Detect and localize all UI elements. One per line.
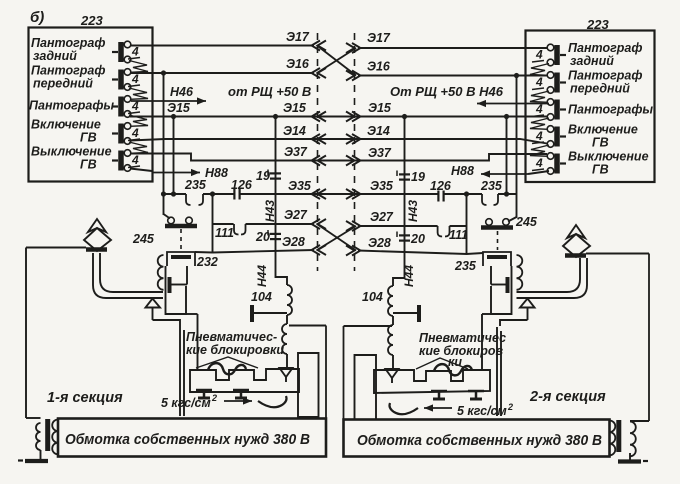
valve block side chamber (left)	[298, 353, 319, 417]
holding coil 245 (left)	[132, 232, 164, 290]
svg-text:Пантографы: Пантографы	[568, 103, 653, 117]
svg-text:Пантограф: Пантограф	[568, 69, 642, 83]
svg-text:Н44: Н44	[402, 265, 416, 287]
mechanical link to valve 235 (dashed, right)	[497, 231, 499, 250]
svg-text:Пантограф: Пантограф	[31, 64, 105, 78]
svg-text:ГВ: ГВ	[592, 136, 609, 150]
contact 111 (right)	[438, 226, 468, 242]
capacitor 20 (right)	[397, 232, 425, 247]
svg-text:2-я секция: 2-я секция	[529, 389, 606, 405]
diode arrester (left)	[146, 299, 181, 327]
svg-text:б): б)	[30, 9, 44, 26]
valve 232 armature plate	[170, 266, 188, 293]
crossover Э17/Э16 between sections	[317, 46, 356, 76]
vertical wire from Э16 to blocking contacts (right)	[516, 76, 518, 219]
switch contact SQ1 "пантограф задний" with pin label 4 (left box)	[31, 36, 140, 63]
svg-text:Н44: Н44	[255, 265, 269, 287]
svg-text:Э16: Э16	[367, 60, 391, 74]
svg-text:Э35: Э35	[288, 179, 312, 193]
wire Э35	[161, 179, 517, 199]
air pipe from pantograph drive (right, double line)	[517, 258, 588, 298]
svg-text:Э37: Э37	[368, 146, 392, 160]
switch contact SQ2' "пантограф передний" with pin label 4 (right box)	[532, 69, 642, 96]
svg-text:задний: задний	[33, 49, 77, 63]
svg-text:Э27: Э27	[284, 208, 308, 222]
svg-text:Э15: Э15	[283, 101, 307, 115]
diode at pneumatic block (left)	[280, 368, 293, 382]
svg-text:передний: передний	[570, 82, 630, 96]
air pressure label 5 кгс/см2 (right)	[390, 402, 514, 418]
svg-text:передний: передний	[33, 77, 93, 91]
roof wire from pantograph to section feeder (right)	[586, 254, 649, 422]
wire Э14	[130, 124, 547, 144]
interlock contact 235 (left)	[184, 178, 207, 205]
switch contact SQ3 "пантографы" with pin label 4 (left box)	[29, 96, 140, 118]
wire Э17 right half	[346, 31, 547, 53]
switch contact SQ1' "пантограф задний" with pin label 4 (right box)	[532, 41, 642, 68]
svg-text:кие блокировки: кие блокировки	[186, 343, 284, 357]
wire Э16 right half	[346, 60, 547, 81]
wire Э28	[213, 235, 468, 256]
svg-text:4: 4	[131, 72, 139, 86]
pneumatic valve coil (left)	[282, 315, 287, 368]
ground (right)	[618, 453, 648, 462]
svg-text:Пневматичес-: Пневматичес-	[186, 330, 277, 344]
svg-text:235: 235	[480, 179, 503, 193]
electro-pneumatic valve 232	[167, 252, 218, 269]
svg-text:ГВ: ГВ	[80, 158, 97, 172]
svg-text:Н46: Н46	[170, 85, 194, 99]
svg-text:Э14: Э14	[367, 124, 390, 138]
capacitor 19 (left)	[256, 169, 281, 183]
wire Н44 from Э28 to valve coil (right)	[393, 254, 416, 287]
svg-text:4: 4	[131, 126, 139, 140]
svg-text:4: 4	[535, 156, 543, 170]
svg-text:задний: задний	[570, 54, 614, 68]
svg-text:126: 126	[430, 179, 452, 193]
air pressure label 5 кгс/см2 (left)	[161, 393, 287, 410]
wire Н46 arrow (left)	[131, 85, 206, 105]
vertical wire Э15 to wire 235 node (left)	[173, 117, 175, 195]
svg-text:1-я секция: 1-я секция	[47, 390, 123, 406]
svg-text:19: 19	[256, 169, 270, 183]
section-boundary dashed line (right)	[354, 33, 356, 271]
switch contact SQ4 "включение ГВ" with pin label 4 (left box)	[31, 118, 140, 145]
valve 235 body (right)	[482, 266, 512, 371]
capacitor 104 plate (right)	[393, 305, 419, 322]
wire Н88 arrow (left)	[130, 166, 228, 180]
svg-text:20: 20	[255, 230, 270, 244]
svg-text:245: 245	[515, 215, 538, 229]
crossover Э27/Э28 between sections	[317, 224, 356, 251]
transformer (left)	[36, 419, 58, 454]
interlock contact 235 (right)	[480, 179, 503, 205]
svg-text:от РЩ +50 В: от РЩ +50 В	[228, 84, 311, 99]
diode arrester (right)	[500, 299, 535, 327]
blocking contact with pins (right)	[481, 217, 517, 228]
wire Н88 arrow (right)	[451, 164, 549, 178]
wire Э16 left half	[130, 57, 326, 78]
section enclosure lines (right)	[344, 326, 502, 420]
valve 232 body	[166, 266, 198, 370]
label Пневматические блокировки (right)	[416, 331, 506, 369]
switch contact SQ3' "пантографы" with pin label 4 (right box)	[532, 99, 653, 121]
svg-text:Э17: Э17	[367, 31, 391, 45]
svg-text:Н88: Н88	[451, 164, 474, 178]
label Пневматические блокировки (left)	[186, 330, 284, 368]
svg-text:Н88: Н88	[205, 166, 228, 180]
svg-text:235: 235	[454, 259, 477, 273]
svg-text:ГВ: ГВ	[592, 163, 609, 177]
pneumatic blocking valves (right section)	[374, 364, 490, 399]
controller box 223 (right)	[526, 17, 655, 182]
wire Н43 vertical with capacitors 19 and 20 (left)	[263, 117, 277, 251]
wire Э17 left half	[130, 30, 326, 51]
wire Н46? vertical from Э16 to blocking contacts (left)	[163, 73, 165, 215]
auxiliary winding box 380V (right)	[344, 420, 610, 457]
section label 1-я секция	[47, 390, 123, 406]
svg-text:2: 2	[507, 402, 513, 412]
svg-text:104: 104	[362, 290, 383, 304]
roof wire from pantograph to section feeder (left)	[26, 248, 86, 419]
wire Н43 vertical with capacitors 19 and 20 (right)	[405, 117, 421, 255]
svg-text:5 кгс/см: 5 кгс/см	[457, 404, 507, 418]
pneumatic blocking valves (left section)	[190, 363, 299, 398]
svg-text:4: 4	[131, 153, 139, 167]
diode at pneumatic block (right)	[386, 369, 399, 383]
svg-text:Обмотка собственных нужд 380: Обмотка собственных нужд 380 В	[357, 433, 602, 449]
svg-text:223: 223	[80, 13, 103, 28]
wire Н46 arrow (right) with feeder label От РЩ +50 В	[390, 84, 549, 107]
zigzag interlock wires between right box contacts	[530, 64, 549, 157]
mechanical link to valve 232 (dashed)	[180, 229, 182, 250]
wire Э37 with jogs	[130, 145, 547, 166]
vertical wire node to Э27 (left)	[212, 194, 214, 253]
svg-text:Пантографы: Пантографы	[29, 99, 114, 113]
svg-text:5 кгс/см: 5 кгс/см	[161, 396, 211, 410]
valve magnet coil 104 (right)	[362, 286, 393, 316]
svg-text:Э35: Э35	[370, 179, 394, 193]
vertical wire node to Э27 (right)	[466, 194, 468, 254]
svg-text:19: 19	[411, 170, 425, 184]
svg-text:111: 111	[449, 228, 468, 242]
holding coil 245 (right)	[515, 215, 538, 290]
section enclosure lines (left)	[180, 326, 326, 419]
svg-text:20: 20	[410, 232, 425, 246]
switch contact SQ5 "выключение ГВ" with pin label 4 (left box)	[31, 145, 140, 172]
svg-text:Выключение: Выключение	[568, 150, 649, 164]
svg-text:Н43: Н43	[263, 200, 277, 222]
svg-text:Э28: Э28	[368, 236, 391, 250]
svg-text:ГВ: ГВ	[80, 131, 97, 145]
svg-text:Включение: Включение	[568, 123, 638, 137]
vertical wire Э15 to wire 235 node (right)	[506, 117, 508, 195]
svg-text:4: 4	[131, 45, 139, 59]
switch contact SQ2 "пантограф передний" with pin label 4 (left box)	[31, 64, 140, 91]
section label 2-я секция	[529, 389, 606, 405]
capacitor 126 (left)	[231, 178, 253, 200]
wire Н44 from Э28 to valve coil (left)	[255, 251, 287, 288]
auxiliary winding box 380V (left)	[58, 419, 326, 457]
controller box 223 (left)	[29, 13, 153, 182]
switch contact SQ4' "включение ГВ" with pin label 4 (right box)	[532, 123, 638, 150]
feeder label от РЩ +50 В (left)	[228, 84, 311, 99]
valve 235 armature plate (right)	[491, 266, 508, 293]
section-boundary dashed line (left)	[317, 33, 319, 271]
pantograph (right section)	[563, 225, 590, 257]
svg-text:Э27: Э27	[370, 210, 394, 224]
switch contact SQ5' "выключение ГВ" with pin label 4 (right box)	[532, 150, 649, 177]
svg-text:Пантограф: Пантограф	[31, 36, 105, 50]
zigzag interlock wires between left box contacts	[129, 61, 148, 154]
capacitor 19 (right)	[397, 170, 425, 184]
svg-text:От РЩ +50 В Н46: От РЩ +50 В Н46	[390, 84, 504, 99]
capacitor 20 (left)	[255, 230, 281, 244]
valve magnet coil 104 (left)	[251, 285, 292, 315]
pantograph (left section)	[84, 219, 111, 251]
svg-text:Выключение: Выключение	[31, 145, 112, 159]
svg-text:Пневматичес: Пневматичес	[419, 331, 506, 345]
blocking contact with pins (left)	[164, 214, 198, 226]
capacitor 126 (right)	[430, 179, 452, 202]
svg-text:232: 232	[196, 255, 218, 269]
svg-text:Э15: Э15	[368, 101, 392, 115]
wire Э27	[213, 208, 468, 231]
svg-text:4: 4	[535, 75, 543, 89]
svg-text:Э37: Э37	[284, 145, 308, 159]
electro-pneumatic valve 235 (right)	[454, 252, 511, 273]
svg-text:4: 4	[535, 48, 543, 62]
pneumatic valve coil (right)	[388, 316, 393, 369]
svg-text:Э14: Э14	[283, 124, 306, 138]
wire Э15	[130, 101, 547, 122]
ground (left)	[18, 450, 48, 461]
svg-text:Пантограф: Пантограф	[568, 41, 642, 55]
capacitor 104 plate (left)	[252, 305, 287, 322]
svg-text:Э16: Э16	[286, 57, 310, 71]
air pipe from pantograph drive (left, double line)	[93, 253, 163, 298]
svg-text:Э15: Э15	[167, 101, 191, 115]
svg-text:Э17: Э17	[286, 30, 310, 44]
svg-text:Обмотка собственных нужд 380: Обмотка собственных нужд 380 В	[65, 432, 310, 448]
svg-text:2: 2	[211, 393, 217, 403]
transformer (right)	[610, 420, 650, 456]
svg-text:Н43: Н43	[406, 200, 420, 222]
svg-text:111: 111	[215, 226, 234, 240]
valve block side chamber (right)	[355, 355, 377, 420]
svg-text:223: 223	[586, 17, 609, 32]
svg-text:126: 126	[231, 178, 253, 192]
svg-text:104: 104	[251, 290, 272, 304]
svg-text:245: 245	[132, 232, 155, 246]
svg-text:235: 235	[184, 178, 207, 192]
figure label б)	[30, 9, 44, 26]
contact 111 (left)	[215, 224, 246, 240]
svg-text:Э28: Э28	[282, 235, 305, 249]
svg-text:Включение: Включение	[31, 118, 101, 132]
